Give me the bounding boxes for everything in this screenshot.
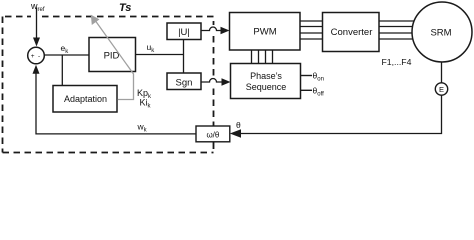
svg-text:ω/θ: ω/θ <box>206 131 219 140</box>
svg-text:PWM: PWM <box>253 27 276 38</box>
arrowhead into PWM <box>221 27 230 34</box>
wire w_k feedback to summer <box>36 74 196 134</box>
arrowhead w_ref into summer <box>33 38 40 47</box>
wire w_ref input <box>36 8 38 39</box>
gray arrowhead on PID diagonal <box>91 15 100 25</box>
Adaptation block <box>53 86 117 113</box>
wire theta_off <box>301 89 313 91</box>
arrowhead feedback into summer <box>33 65 40 74</box>
omega over theta block <box>196 126 230 142</box>
bus Converter to SRM <box>379 21 415 39</box>
wire u_k PID to branch <box>136 54 184 56</box>
svg-text:E: E <box>439 85 444 94</box>
wire Sgn to Phase's Sequence with boundary hop <box>201 79 222 83</box>
Converter block <box>323 13 380 52</box>
svg-text:-: - <box>38 53 40 60</box>
svg-text:Converter: Converter <box>331 27 373 38</box>
svg-text:Phase’s: Phase’s <box>250 71 282 81</box>
wire SRM to encoder <box>441 62 443 83</box>
svg-text:wk: wk <box>137 122 148 134</box>
Phase's Sequence block <box>231 64 301 99</box>
svg-text:uk: uk <box>147 42 156 54</box>
svg-text:θ: θ <box>236 120 241 130</box>
wire e_k summer to PID <box>45 54 90 56</box>
wire branch down to Adaptation <box>61 55 63 86</box>
wire encoder feedback down and left <box>241 95 442 133</box>
wire branch to U and Sgn <box>183 40 185 74</box>
arrowhead into Phase's Sequence <box>222 78 231 85</box>
encoder E circle <box>435 83 447 95</box>
svg-text:θoff: θoff <box>313 86 325 98</box>
svg-text:F1,...F4: F1,...F4 <box>382 57 412 67</box>
svg-text:Sgn: Sgn <box>176 78 193 89</box>
svg-text:+: + <box>31 53 35 60</box>
arrowhead theta into omega-theta block <box>230 129 241 137</box>
gray adaptation gain path to PID <box>94 18 134 99</box>
PWM block <box>230 13 301 51</box>
wire U to PWM with boundary hop <box>201 27 221 31</box>
svg-text:ek: ek <box>61 43 70 55</box>
dashed controller boundary box Ts <box>3 17 214 153</box>
svg-text:θon: θon <box>313 71 324 83</box>
summing junction <box>28 47 45 64</box>
svg-text:wref: wref <box>30 1 45 13</box>
bus PWM to Phase's Sequence <box>252 50 273 64</box>
block U magnitude <box>167 23 201 40</box>
svg-text:Sequence: Sequence <box>246 82 287 92</box>
block Sgn <box>167 73 201 90</box>
SRM machine circle <box>412 2 472 62</box>
svg-text:SRM: SRM <box>430 27 451 38</box>
PID block <box>89 38 136 72</box>
svg-text:Adaptation: Adaptation <box>64 94 107 104</box>
svg-text:|U|: |U| <box>178 27 190 38</box>
svg-text:Ts: Ts <box>119 2 131 14</box>
bus PWM to Converter <box>300 21 323 39</box>
wire theta_on <box>301 75 313 77</box>
